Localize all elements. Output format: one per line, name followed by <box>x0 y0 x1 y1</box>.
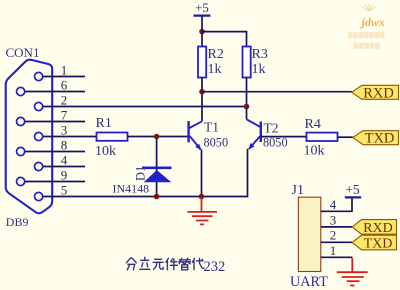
wire T2 base to R4 <box>261 136 307 138</box>
wire pin8 stub <box>25 151 85 153</box>
transistor T2 emitter arrow <box>248 143 254 150</box>
wire J1 pin1 to ground <box>321 256 353 258</box>
wire J1 pin2 to TXD flag <box>321 241 352 243</box>
ground symbol left <box>188 197 218 224</box>
flag TXD top <box>353 131 399 147</box>
svg-text:+5: +5 <box>345 182 360 197</box>
char 元 <box>153 259 163 269</box>
resistor R4 <box>307 133 338 141</box>
wire pin4 stub <box>43 166 85 168</box>
svg-text:4: 4 <box>330 197 337 212</box>
transistor T1 emitter arrow <box>195 144 201 151</box>
transistor T1 emitter lead <box>190 136 201 150</box>
svg-text:UART: UART <box>290 274 328 290</box>
connector J1 box <box>298 197 320 271</box>
flag RXD J1 <box>352 220 396 236</box>
pin 4 circle <box>35 162 43 170</box>
wire R2 bottom to T1 collector <box>201 78 203 122</box>
svg-text:2: 2 <box>61 93 68 108</box>
wire +5 stem to R2 top <box>201 16 203 47</box>
svg-text:R1: R1 <box>96 116 112 131</box>
ground symbol right <box>337 258 368 286</box>
svg-text:+5: +5 <box>195 0 209 15</box>
svg-text:4: 4 <box>61 153 68 168</box>
transistor T2 base bar <box>260 122 262 143</box>
connector CON1 DB9 outline <box>6 60 53 214</box>
wire R1 to T1 base <box>128 136 189 138</box>
char 替 <box>179 258 191 270</box>
wire J1 pin3 to RXD flag <box>321 226 352 228</box>
wire J1 pin4 to +5 <box>321 197 352 211</box>
svg-text:2: 2 <box>330 228 337 243</box>
resistor R2 <box>198 47 206 78</box>
svg-text:1: 1 <box>330 243 337 258</box>
char 分 <box>126 258 136 270</box>
svg-text:3: 3 <box>330 212 337 227</box>
wire RXD line <box>202 91 352 93</box>
svg-text:jdwx: jdwx <box>360 15 385 29</box>
transistor T2 emitter lead <box>249 136 260 149</box>
svg-text:1: 1 <box>61 63 68 78</box>
node junction T1 emitter / rail <box>199 194 205 200</box>
node junction +5 split <box>199 29 205 35</box>
wire pin7 stub <box>25 121 85 123</box>
svg-text:T2: T2 <box>264 120 279 135</box>
svg-text:TXD: TXD <box>364 237 393 252</box>
char 代 <box>193 258 205 270</box>
svg-text:10k: 10k <box>95 144 116 159</box>
resistor R1 <box>97 133 128 141</box>
svg-text:R4: R4 <box>305 117 321 132</box>
watermark chinese line2 <box>354 43 380 49</box>
wire pin2 to R3 node <box>43 106 247 108</box>
node junction R1/D1/T1 base <box>154 134 160 140</box>
wire pin3 to R1 <box>43 136 97 138</box>
svg-text:R2: R2 <box>208 47 224 62</box>
svg-text:R3: R3 <box>252 47 268 62</box>
svg-text:1k: 1k <box>208 62 222 77</box>
node junction R2/T1 collector/RXD <box>199 89 205 95</box>
wire pin9 stub <box>25 181 85 183</box>
char 件 <box>166 258 178 270</box>
svg-text:9: 9 <box>61 168 68 183</box>
pin 3 circle <box>35 132 43 140</box>
pin 8 circle <box>17 147 25 155</box>
svg-text:5: 5 <box>61 183 68 198</box>
wire +5 to R3 top <box>202 32 247 47</box>
power +5 J1 bar <box>345 196 361 198</box>
node junction R3/pin2/T2 collector <box>244 104 250 110</box>
watermark rays <box>362 4 376 12</box>
flag TXD J1 <box>352 235 396 251</box>
svg-text:IN4148: IN4148 <box>113 182 150 196</box>
wire T1 emitter to rail <box>201 150 203 197</box>
wire pin5 ground rail <box>43 196 248 198</box>
svg-text:1k: 1k <box>252 62 266 77</box>
svg-text:10k: 10k <box>304 143 325 158</box>
svg-text:232: 232 <box>204 259 226 275</box>
svg-text:TXD: TXD <box>365 131 395 147</box>
power +5 top bar <box>194 15 211 17</box>
wire T2 emitter to rail <box>247 149 249 198</box>
wire pin1 stub <box>43 76 85 78</box>
svg-text:D1: D1 <box>134 166 148 181</box>
wire T2 collector vertical <box>246 107 248 120</box>
pin 6 circle <box>17 87 25 95</box>
svg-text:DB9: DB9 <box>6 215 29 229</box>
node junction D1 anode / ground rail <box>154 194 160 200</box>
svg-text:CON1: CON1 <box>6 45 40 60</box>
svg-text:T1: T1 <box>204 119 219 134</box>
transistor T1 base bar <box>187 121 189 142</box>
svg-text:J1: J1 <box>292 183 304 198</box>
pin 5 circle <box>35 192 43 200</box>
svg-text:8050: 8050 <box>204 135 229 149</box>
wire R4 to TXD flag <box>338 136 353 138</box>
svg-text:RXD: RXD <box>363 221 393 236</box>
transistor T2 collector lead <box>247 119 261 127</box>
watermark chinese line1 <box>348 32 384 39</box>
svg-text:RXD: RXD <box>363 85 394 101</box>
diode D1 cathode bar <box>142 167 172 170</box>
pin 2 circle <box>35 102 43 110</box>
wire D1 vertical <box>156 137 158 197</box>
wire R3 bottom <box>246 78 248 107</box>
char 立 <box>140 257 150 269</box>
svg-text:3: 3 <box>61 123 68 138</box>
transistor T1 collector lead <box>190 121 203 128</box>
svg-text:8: 8 <box>61 138 68 153</box>
pin 1 circle <box>35 72 43 80</box>
pin 7 circle <box>17 117 25 125</box>
svg-text:6: 6 <box>61 78 68 93</box>
pin 9 circle <box>17 177 25 185</box>
diode D1 triangle <box>144 170 172 182</box>
flag RXD top <box>352 85 399 101</box>
resistor R3 <box>243 47 251 78</box>
title 分立元件替代232 hand-drawn glyphs <box>126 257 204 270</box>
wire pin6 stub <box>25 91 85 93</box>
svg-text:7: 7 <box>61 108 68 123</box>
